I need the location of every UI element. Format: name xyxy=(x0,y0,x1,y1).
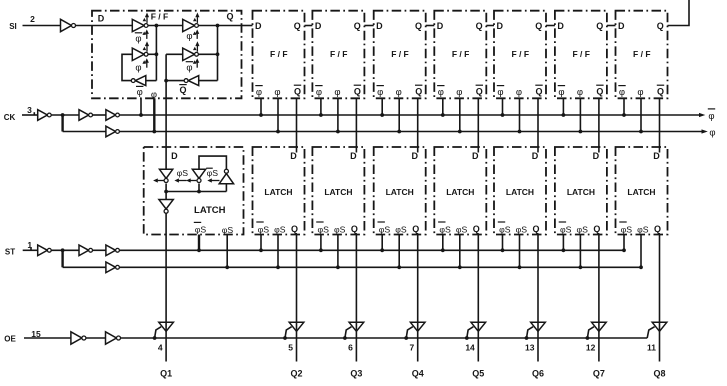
input ST label xyxy=(5,240,33,257)
svg-text:D: D xyxy=(290,151,297,161)
LATCH 7 label phiS-bar xyxy=(559,222,572,235)
svg-text:D: D xyxy=(437,21,444,31)
wire LATCH 4 Q down to buffer xyxy=(417,235,419,362)
LATCH 6 label phiS xyxy=(516,225,528,235)
F/F 3 label Q-bar xyxy=(354,85,361,96)
node slave (dot) xyxy=(216,24,220,28)
wire phi stub F/F 8 xyxy=(640,98,642,131)
wire Q to D link 5-6 xyxy=(486,25,494,27)
svg-text:Q: Q xyxy=(294,87,301,97)
svg-text:Q: Q xyxy=(657,87,664,97)
svg-text:φ: φ xyxy=(135,62,141,73)
junction phiS-bar LATCH 3 (dot) xyxy=(319,248,323,252)
F/F 2 label phi-bar xyxy=(255,86,262,99)
wire phi-bar stub F/F 8 xyxy=(623,98,625,115)
svg-text:D: D xyxy=(472,151,479,161)
wire ST input xyxy=(23,249,38,251)
svg-text:4: 4 xyxy=(158,343,163,353)
junction phiS-bar LATCH 2 (dot) xyxy=(259,248,263,252)
F/F 8 label Q-bar xyxy=(657,85,664,96)
wire master static inverter input xyxy=(146,80,157,82)
wire phiS stub LATCH 8 xyxy=(640,235,642,268)
LATCH 8 label D xyxy=(653,151,660,161)
svg-text:Q: Q xyxy=(415,87,422,97)
F/F 3 label phi xyxy=(334,87,340,98)
svg-text:φS: φS xyxy=(439,225,451,235)
svg-text:Q: Q xyxy=(535,87,542,97)
clocked inverter F/F1 slave feedback xyxy=(183,41,200,67)
inverter ST first xyxy=(38,245,51,256)
flip-flop F/F 4 box xyxy=(374,11,426,99)
junction phiS-bar LATCH 7 (dot) xyxy=(562,248,566,252)
pin 11 label xyxy=(647,343,656,353)
junction phi-bar F/F 8 (dot) xyxy=(622,113,626,117)
flip-flop F/F 3 box xyxy=(312,11,364,99)
F/F 6 label Q xyxy=(535,21,542,31)
latch LATCH 2 box xyxy=(253,147,305,235)
svg-text:ST: ST xyxy=(5,248,15,257)
svg-text:φ: φ xyxy=(637,87,643,98)
junction phiS LATCH 2 (dot) xyxy=(276,265,280,269)
F/F 5 label F/F xyxy=(452,49,469,59)
F/F 5 label D xyxy=(437,21,444,31)
net phiS strobe line xyxy=(120,266,641,268)
svg-text:LATCH: LATCH xyxy=(194,205,226,216)
svg-text:13: 13 xyxy=(525,343,535,353)
wire LATCH 2 Q down to buffer xyxy=(296,235,298,362)
label phi-bar under master input inverter xyxy=(135,33,142,45)
svg-text:φ: φ xyxy=(274,87,280,98)
label phiS-bar stub LATCH1 xyxy=(194,222,207,234)
wire phiS-bar stub LATCH 7 xyxy=(562,235,564,251)
F/F 7 label D xyxy=(557,21,564,31)
pin 6 label xyxy=(348,343,353,353)
junction phiS LATCH 3 (dot) xyxy=(336,265,340,269)
LATCH 3 label Q xyxy=(351,224,358,234)
input CK label xyxy=(4,105,32,122)
F/F 4 label F/F xyxy=(391,49,408,59)
wire master node vertical xyxy=(155,26,157,81)
svg-text:φS: φS xyxy=(317,225,329,235)
svg-text:Q1: Q1 xyxy=(160,369,172,379)
wire master feedback output xyxy=(148,53,156,55)
svg-text:Q: Q xyxy=(412,224,419,234)
clocked inverter LATCH1 feedback (down) xyxy=(186,169,220,182)
output Q1 label xyxy=(160,369,172,379)
junction phi-bar F/F 5 (dot) xyxy=(441,113,445,117)
inverter CK upper third xyxy=(106,110,120,121)
F/F 3 label phi-bar xyxy=(315,86,322,99)
LATCH 8 label phiS-bar xyxy=(619,222,632,235)
LATCH 3 label LATCH xyxy=(324,187,352,197)
wire Q-bar F/F 6 down to LATCH 6 D xyxy=(537,98,539,152)
F/F 5 label Q-bar xyxy=(476,85,483,96)
junction phiS-bar LATCH 4 (dot) xyxy=(380,248,384,252)
wire phi-bar stub F/F 5 xyxy=(442,98,444,115)
wire phiS-bar stub LATCH1 (thick) xyxy=(198,235,200,251)
wire ST branch lower xyxy=(63,266,106,268)
svg-text:Q: Q xyxy=(657,21,664,31)
label phiS LATCH1 input xyxy=(177,168,189,178)
LATCH 3 label phiS xyxy=(334,225,346,235)
flip-flop F/F 2 box xyxy=(253,11,305,99)
LATCH 1 label LATCH xyxy=(194,205,226,216)
F/F 4 label phi xyxy=(396,87,402,98)
junction phi F/F 6 (dot) xyxy=(518,130,522,134)
node master feedback (dot) xyxy=(155,52,159,56)
svg-text:Q: Q xyxy=(415,21,422,31)
wire phiS stub LATCH1 xyxy=(226,235,228,268)
LATCH 4 label Q xyxy=(412,224,419,234)
F/F 8 label phi xyxy=(637,87,643,98)
svg-text:Q: Q xyxy=(596,21,603,31)
wire phi-bar stub F/F 7 xyxy=(562,98,564,115)
node master (dot) xyxy=(155,24,159,28)
flip-flop F/F 5 box xyxy=(434,11,486,99)
LATCH 3 label phiS-bar xyxy=(316,222,329,235)
svg-text:φ: φ xyxy=(438,87,444,98)
tri-state buffer Q2 (down-pointing) xyxy=(289,322,304,331)
F/F 3 label Q xyxy=(354,21,361,31)
F/F 5 label phi xyxy=(456,87,462,98)
svg-text:Q6: Q6 xyxy=(532,369,544,379)
F/F 5 label Q xyxy=(476,21,483,31)
wire phi stub F/F 3 xyxy=(337,98,339,131)
svg-text:Q7: Q7 xyxy=(593,369,605,379)
net phiS-bar strobe line xyxy=(120,249,624,251)
junction phi F/F 3 (dot) xyxy=(336,130,340,134)
latch LATCH 3 box xyxy=(312,147,364,235)
LATCH 5 label D xyxy=(472,151,479,161)
svg-text:φS: φS xyxy=(560,225,572,235)
wire LATCH 3 Q down to buffer xyxy=(355,235,357,362)
LATCH 7 label Q xyxy=(593,224,600,234)
junction phiS LATCH 7 (dot) xyxy=(579,265,583,269)
svg-text:F / F: F / F xyxy=(452,49,469,59)
svg-text:φS: φS xyxy=(395,225,407,235)
svg-text:D: D xyxy=(350,151,357,161)
svg-text:F / F: F / F xyxy=(330,49,347,59)
wire LATCH1 feedback inv output xyxy=(198,184,200,192)
wire phi-bar stub F/F 6 xyxy=(502,98,504,115)
wire Q-bar F/F 8 down to LATCH 8 D xyxy=(659,98,661,152)
wire Q-bar F/F 4 down to LATCH 4 D xyxy=(417,98,419,152)
wire Q to D link 1-2 xyxy=(242,25,253,27)
F/F 7 label Q xyxy=(596,21,603,31)
tri-state buffer Q4 (down-pointing) xyxy=(410,322,425,331)
LATCH 8 label phiS xyxy=(637,225,649,235)
F/F 2 label Q xyxy=(294,21,301,31)
svg-text:LATCH: LATCH xyxy=(264,187,292,197)
F/F 7 label F/F xyxy=(572,49,589,59)
wire Q-bar F/F 2 down to LATCH 2 D xyxy=(296,98,298,152)
inverter CK first xyxy=(38,110,51,121)
net phi clock line xyxy=(120,129,708,133)
junction phi-bar F/F 3 (dot) xyxy=(319,113,323,117)
svg-text:D: D xyxy=(532,151,539,161)
junction phiS LATCH1 (dot) xyxy=(225,265,229,269)
svg-text:5: 5 xyxy=(288,343,293,353)
svg-text:φ: φ xyxy=(577,87,583,98)
label phiS-bar LATCH1 feedback xyxy=(206,168,218,178)
svg-text:D: D xyxy=(593,151,600,161)
wire Q to D link 7-8 xyxy=(607,25,616,27)
LATCH 5 label LATCH xyxy=(446,187,474,197)
svg-text:D: D xyxy=(171,151,178,161)
svg-text:D: D xyxy=(557,21,564,31)
wire phiS-bar stub LATCH 3 xyxy=(320,235,322,251)
svg-text:LATCH: LATCH xyxy=(506,187,534,197)
svg-text:12: 12 xyxy=(586,343,596,353)
node CK branch (dot) xyxy=(61,113,65,117)
svg-text:φ: φ xyxy=(186,62,192,73)
svg-text:Q2: Q2 xyxy=(290,369,302,379)
F/F 1 label Q xyxy=(226,12,233,22)
wire F/F1 Qbar down to LATCH1 D xyxy=(165,54,167,169)
wire phiS-bar stub LATCH 4 xyxy=(381,235,383,251)
inverter LATCH1 feedback static (up-pointing) xyxy=(219,169,233,184)
svg-text:LATCH: LATCH xyxy=(627,187,655,197)
inverter LATCH1 output (down-pointing) xyxy=(159,200,173,214)
label phi-bar under slave feedback inverter xyxy=(186,62,193,74)
pin 14 label xyxy=(465,343,475,353)
svg-text:φ: φ xyxy=(619,87,625,98)
junction phiS-bar LATCH 8 (dot) xyxy=(622,248,626,252)
wire phi-bar stub F/F 4 xyxy=(381,98,383,115)
LATCH 5 label Q xyxy=(473,224,480,234)
junction phiS-bar LATCH1 (dot) xyxy=(197,248,201,252)
svg-text:F / F: F / F xyxy=(572,49,589,59)
svg-text:F / F: F / F xyxy=(512,49,529,59)
svg-text:CK: CK xyxy=(4,113,16,122)
svg-text:11: 11 xyxy=(647,343,656,353)
flip-flop F/F 6 box xyxy=(494,11,546,99)
wire phiS-bar stub LATCH 6 xyxy=(502,235,504,251)
node LATCH1 storage (dot) xyxy=(164,190,168,194)
LATCH 3 label D xyxy=(350,151,357,161)
svg-text:φ: φ xyxy=(396,87,402,98)
F/F 6 label phi xyxy=(516,87,522,98)
LATCH 1 label D xyxy=(171,151,178,161)
svg-text:φS: φS xyxy=(637,225,649,235)
LATCH 6 label D xyxy=(532,151,539,161)
svg-text:φ: φ xyxy=(456,87,462,98)
svg-text:Q3: Q3 xyxy=(350,369,362,379)
clocked inverter F/F1 master feedback xyxy=(132,41,149,67)
wire LATCH1 output down to buffer Q1 xyxy=(165,213,167,361)
wire slave feedback input xyxy=(166,53,183,55)
output Q8 label xyxy=(653,369,665,379)
inverter ST lower xyxy=(106,262,120,273)
F/F 3 label D xyxy=(315,21,322,31)
inverter ST upper second xyxy=(79,245,93,256)
svg-text:φS: φS xyxy=(222,225,234,235)
wire phi stub F/F 5 xyxy=(459,98,461,131)
tri-state buffer Q6 (down-pointing) xyxy=(531,322,546,331)
junction phi F/F 7 (dot) xyxy=(579,130,583,134)
junction phi-bar F/F 2 (dot) xyxy=(259,113,263,117)
wire Q to D link 3-4 xyxy=(364,25,373,27)
pin 5 label xyxy=(288,343,293,353)
LATCH 8 label Q xyxy=(654,224,661,234)
wire LATCH1 input inv output xyxy=(165,184,167,192)
label phi under slave input inverter xyxy=(186,31,192,42)
junction phi-bar F/F 4 (dot) xyxy=(380,113,384,117)
F/F 7 label phi-bar xyxy=(558,86,565,99)
svg-text:φ: φ xyxy=(186,31,192,42)
svg-text:φ: φ xyxy=(497,87,503,98)
svg-text:Q: Q xyxy=(535,21,542,31)
wire CK input xyxy=(22,114,38,116)
latch LATCH 7 box xyxy=(555,147,607,235)
svg-text:F / F: F / F xyxy=(270,49,287,59)
wire LATCH1 storage node xyxy=(166,191,226,193)
svg-text:Q: Q xyxy=(476,21,483,31)
inverter SI buffer xyxy=(61,19,76,31)
svg-text:Q4: Q4 xyxy=(412,369,424,379)
wire ST node xyxy=(51,249,79,251)
output Q6 label xyxy=(532,369,544,379)
LATCH 2 label phiS-bar xyxy=(256,222,269,235)
junction phiS LATCH 5 (dot) xyxy=(458,265,462,269)
pin 12 label xyxy=(586,343,596,353)
F/F 4 label Q-bar xyxy=(415,85,422,96)
svg-text:φS: φS xyxy=(177,168,189,178)
pin tick CK xyxy=(33,112,35,115)
wire CK node xyxy=(51,114,79,116)
wire LATCH1 node to output inverter xyxy=(165,192,167,200)
enable tap buffer Q8 (line end) xyxy=(647,327,654,338)
junction phi-bar F/F1 (dot) xyxy=(139,113,143,117)
svg-text:D: D xyxy=(98,14,105,24)
enable tap buffer Q1 xyxy=(153,327,161,340)
junction phiS LATCH 8 (dot) xyxy=(639,265,643,269)
node Qbar-D junction (dot) xyxy=(164,79,168,83)
pin 4 label xyxy=(158,343,163,353)
junction phiS-bar LATCH 6 (dot) xyxy=(501,248,505,252)
enable tap buffer Q7 xyxy=(586,327,595,340)
svg-text:D: D xyxy=(411,151,418,161)
svg-text:Q: Q xyxy=(596,87,603,97)
wire CK branch lower xyxy=(63,131,106,133)
wire phiS stub LATCH 3 xyxy=(337,235,339,268)
inverter ST upper third xyxy=(106,245,120,256)
output Q5 label xyxy=(472,369,484,379)
input OE label xyxy=(4,329,41,344)
svg-text:F / F: F / F xyxy=(391,49,408,59)
junction phi-bar F/F 6 (dot) xyxy=(501,113,505,117)
enable tap buffer Q3 xyxy=(343,327,352,340)
enable tap buffer Q6 xyxy=(525,327,534,340)
enable tap buffer Q4 xyxy=(404,327,412,340)
wire phi-bar stub F/F 2 xyxy=(260,98,262,115)
F/F 2 label F/F xyxy=(270,49,287,59)
F/F 4 label D xyxy=(376,21,383,31)
pin tick ST xyxy=(30,248,32,251)
wire slave feedback to node line xyxy=(166,80,184,82)
LATCH 6 label Q xyxy=(532,224,539,234)
svg-text:φ: φ xyxy=(316,87,322,98)
wire phiS-bar stub LATCH 8 xyxy=(623,235,625,251)
junction phiS LATCH 4 (dot) xyxy=(397,265,401,269)
wire LATCH 7 Q down to buffer xyxy=(598,235,600,362)
svg-text:Q: Q xyxy=(294,21,301,31)
svg-text:φ: φ xyxy=(516,87,522,98)
enable tap buffer Q5 xyxy=(465,327,474,340)
wire CK branch down (thick) xyxy=(61,115,63,132)
F/F 3 label F/F xyxy=(330,49,347,59)
svg-text:Q: Q xyxy=(473,224,480,234)
label phiS stub LATCH1 xyxy=(222,225,234,235)
wire ST upper link xyxy=(93,249,106,251)
junction phi F/F 5 (dot) xyxy=(458,130,462,134)
input SI label xyxy=(9,14,35,31)
F/F 6 label F/F xyxy=(512,49,529,59)
output Q7 label xyxy=(593,369,605,379)
F/F 8 label D xyxy=(618,21,625,31)
tri-state buffer Q3 (down-pointing) xyxy=(349,322,364,331)
F/F 6 label D xyxy=(496,21,503,31)
svg-text:φ: φ xyxy=(137,87,143,98)
tri-state buffer Q7 (down-pointing) xyxy=(592,322,607,331)
svg-text:6: 6 xyxy=(348,343,353,353)
F/F 7 label phi xyxy=(577,87,583,98)
latch LATCH 1 box xyxy=(144,147,244,235)
node LATCH1 feedback (dot) xyxy=(197,190,201,194)
svg-text:Q: Q xyxy=(291,224,298,234)
svg-text:D: D xyxy=(618,21,625,31)
svg-text:φS: φS xyxy=(456,225,468,235)
wire master feedback loop xyxy=(122,54,132,80)
net OE enable line xyxy=(121,337,648,339)
LATCH 2 label D xyxy=(290,151,297,161)
F/F 8 label F/F xyxy=(633,49,650,59)
LATCH 4 label D xyxy=(411,151,418,161)
LATCH 2 label phiS xyxy=(274,225,286,235)
LATCH 4 label LATCH xyxy=(386,187,414,197)
svg-text:14: 14 xyxy=(465,343,475,353)
wire slave static inverter input xyxy=(199,80,218,82)
wire LATCH 5 Q down to buffer xyxy=(477,235,479,362)
wire phi stub F/F 7 xyxy=(579,98,581,131)
LATCH 2 label LATCH xyxy=(264,187,292,197)
F/F 5 label phi-bar xyxy=(437,86,444,99)
LATCH 8 label LATCH xyxy=(627,187,655,197)
wire Q to D link 6-7 xyxy=(546,25,555,27)
F/F 1 label F/F xyxy=(151,12,168,22)
wire slave node vertical xyxy=(217,26,219,81)
svg-text:φS: φS xyxy=(516,225,528,235)
wire LATCH1 feedback top loop xyxy=(199,156,226,169)
svg-text:Q5: Q5 xyxy=(472,369,484,379)
wire OE link xyxy=(86,337,106,339)
svg-text:φS: φS xyxy=(334,225,346,235)
junction phi-bar F/F 7 (dot) xyxy=(562,113,566,117)
svg-text:Q8: Q8 xyxy=(653,369,665,379)
wire Q to D link 4-5 xyxy=(426,25,435,27)
svg-text:F / F: F / F xyxy=(151,12,168,22)
svg-text:7: 7 xyxy=(409,343,414,353)
pin 7 label xyxy=(409,343,414,353)
LATCH 6 label phiS-bar xyxy=(498,222,511,235)
svg-text:D: D xyxy=(255,21,262,31)
F/F 4 label Q xyxy=(415,21,422,31)
svg-text:φ: φ xyxy=(256,87,262,98)
LATCH 7 label phiS xyxy=(576,225,588,235)
LATCH 7 label LATCH xyxy=(567,187,595,197)
label phi stub F/F1 xyxy=(151,90,157,101)
wire Q-bar F/F 3 down to LATCH 3 D xyxy=(355,98,357,152)
